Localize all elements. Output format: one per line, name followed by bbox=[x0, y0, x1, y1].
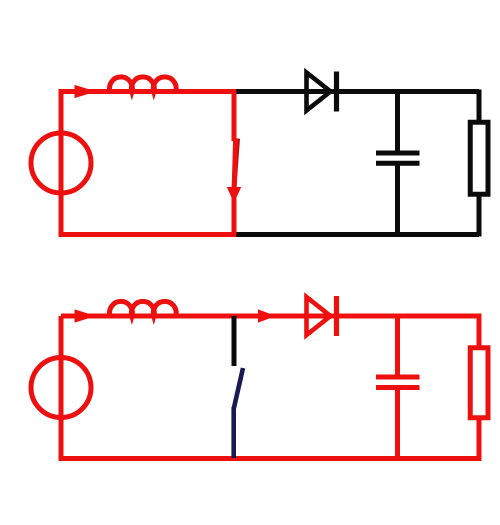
wire: top circuit red loop (top wire, left rail, bottom wire) bbox=[61, 92, 236, 235]
wire: top circuit right rail upper segment bbox=[477, 90, 482, 124]
resistor R (load, bottom circuit) bbox=[470, 348, 488, 418]
inductor L (top circuit) bbox=[110, 77, 177, 92]
wire: top circuit switch branch (closed, carrying current) bbox=[234, 92, 236, 235]
current arrow on top wire (top circuit) bbox=[75, 85, 97, 98]
switch S lower stub (bottom circuit) bbox=[231, 407, 236, 458]
current arrow on top wire after switch node (bottom circuit) bbox=[258, 309, 276, 322]
diode D (bottom circuit) bbox=[307, 296, 337, 336]
resistor R (load, top circuit) bbox=[470, 122, 488, 194]
wire: top circuit black bottom wire (junction to right rail) bbox=[234, 232, 479, 237]
wire: bottom circuit red outer loop bbox=[61, 316, 479, 459]
switch S upper stub (bottom circuit) bbox=[232, 316, 237, 366]
switch S open lever (bottom circuit) bbox=[234, 368, 243, 408]
wire: top circuit black top wire (junction to right rail) bbox=[234, 89, 479, 94]
diode D (top circuit) bbox=[307, 72, 337, 112]
capacitor C (top circuit) bbox=[376, 92, 420, 235]
voltage source V (top circuit) bbox=[31, 133, 91, 193]
voltage source V (bottom circuit) bbox=[31, 358, 91, 418]
current arrow on top wire left (bottom circuit) bbox=[75, 309, 97, 322]
capacitor C (bottom circuit) bbox=[376, 316, 420, 459]
wire: top circuit right rail lower segment bbox=[477, 194, 482, 237]
current arrow on switch branch pointing down (top circuit) bbox=[227, 187, 241, 203]
switch S closed lever (top circuit) bbox=[234, 139, 238, 192]
inductor L (bottom circuit) bbox=[110, 301, 177, 316]
